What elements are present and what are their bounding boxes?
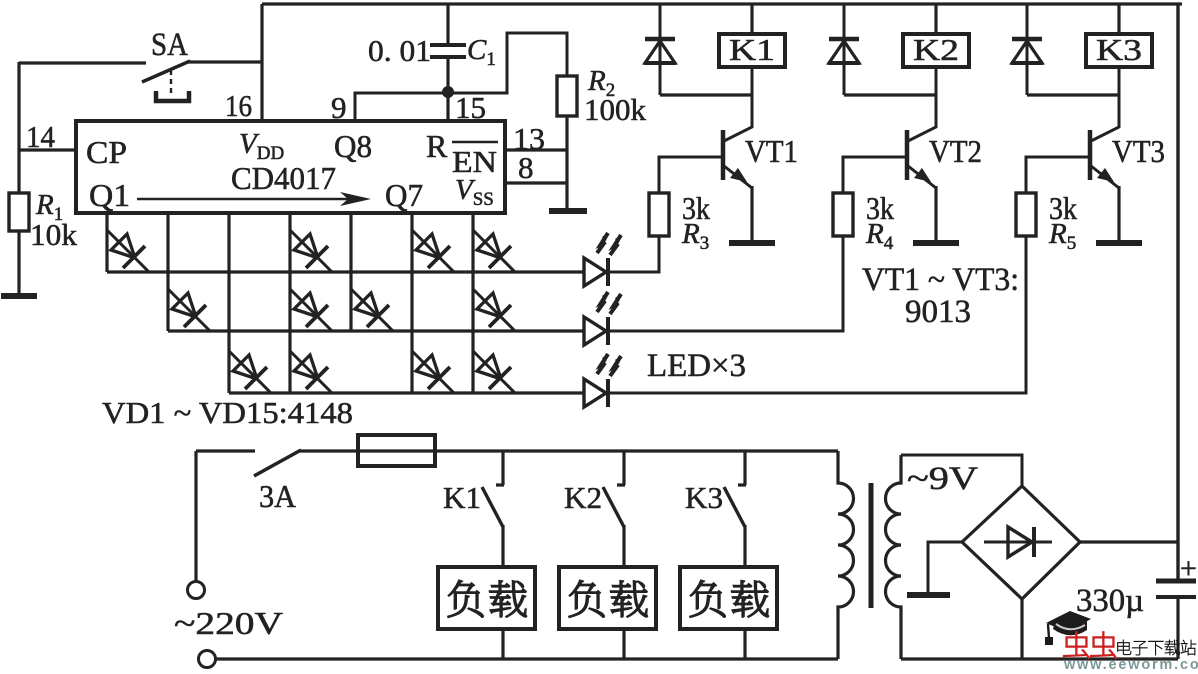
diode (flyback, across K2) [828,4,860,95]
diode (flyback, across K1) [644,4,676,95]
diode VD6 (matrix col Q4 to row 2) [290,289,332,331]
LED 3 [584,354,621,407]
wire: VT3 emitter to ground [1117,186,1120,242]
wire: bridge + output to right rail [1080,540,1178,543]
wire: contact K1 top stub [496,451,504,485]
wire: contact K3 to load [743,525,746,567]
watermark: site name text [1117,640,1196,655]
svg-text:~9V: ~9V [907,461,978,497]
svg-text:R: R [426,128,448,164]
svg-text:330µ: 330µ [1076,583,1144,619]
wire: +V right rail down to filter cap [1176,4,1179,579]
svg-text:~220V: ~220V [174,605,283,641]
wire: relay K3 top lead [1117,4,1120,34]
svg-text:+: + [1180,552,1197,585]
terminal: AC neutral [199,651,216,668]
arrow Q1 to Q7 [137,192,371,206]
junction node (pin15/C1/Q8/R2) [442,86,454,98]
wire: output column Q5 [349,213,352,331]
ground (VT2 emitter) [913,242,959,244]
svg-text:8: 8 [518,150,534,185]
wire: bridge bottom corner to secondary return [1020,599,1023,659]
wire: output column Q7 [471,213,474,393]
svg-text:14: 14 [26,119,55,154]
diode VD4 (matrix col Q7 to row 1) [473,230,515,272]
wire: +V top rail [262,2,1182,5]
wire: reset node to R2 top [448,33,567,93]
switch SA actuator dashed link [170,70,172,93]
svg-text:CD4017: CD4017 [231,160,336,196]
diode VD7 (matrix col Q5 to row 2) [351,289,393,331]
svg-text:10k: 10k [30,217,78,252]
wire: contact K2 top stub [617,451,625,485]
wire: relay K2 top lead [934,4,937,34]
diode VD8 (matrix col Q7 to row 2) [473,289,515,331]
svg-text:0. 01: 0. 01 [368,33,431,68]
wire: contact K2 to load [622,525,625,567]
relay contact K3 blade [724,487,745,527]
diode VD3 (matrix col Q6 to row 1) [412,230,454,272]
resistor R5 [1016,193,1036,236]
svg-text:VT2: VT2 [929,133,982,169]
diode VD12 (matrix col Q7 to row 3) [473,351,515,393]
wire: K3 bottom to VT3 collector [1091,67,1119,141]
wire: output column Q4 [288,213,291,393]
watermark: graduation cap logo [1045,611,1091,645]
wire: output column Q3 [227,213,230,393]
wire: matrix bus row 1 [107,270,584,273]
wire: mains left stub [196,449,255,452]
ground (VT1 emitter) [729,242,775,244]
capacitor C1 [430,45,466,57]
ground (R1) [1,293,37,299]
wire: Q8 pin 9 link to reset node [355,93,448,121]
wire: pin 8 stub [505,181,567,184]
wire: load (K1) to mains bottom [501,629,504,659]
svg-text:K3: K3 [1096,32,1142,67]
bridge rectifier (diamond) [962,486,1080,599]
wire: relay K1 top lead [750,4,753,34]
switch SA blade [142,61,190,82]
pin label EN (active low) [452,142,498,179]
load box (K2) [559,567,656,629]
svg-text:9013: 9013 [905,294,971,330]
wire: VT1 emitter to ground [750,186,753,242]
resistor R2 [557,76,577,116]
wire: load (K2) to mains bottom [622,629,625,659]
svg-text:K1: K1 [729,32,775,67]
wire: VT2 emitter to ground [934,186,937,242]
diode (bridge symbol) [984,527,1052,557]
svg-text:LED×3: LED×3 [647,348,746,384]
relay contact K1 blade [482,487,503,527]
wire: output column Q1 [105,213,108,272]
wire: R2 bottom to ground [565,116,568,209]
svg-text:K3: K3 [685,480,723,515]
wire: mains bottom line [216,657,838,660]
wire: mains top line (switch to transformer) [299,449,838,452]
diode VD10 (matrix col Q4 to row 3) [290,351,332,393]
svg-text:3A: 3A [259,478,296,514]
resistor R3 [649,193,669,236]
terminal: AC live [188,582,205,599]
svg-text:Q1: Q1 [89,177,130,213]
wire: VT1 base to R3 [659,157,723,193]
LED 2 [584,292,621,345]
wire: C1 top lead [446,4,449,44]
transformer T core [869,483,874,608]
wire: cap bottom lead [1176,597,1179,659]
wire: output column Q2 [166,213,169,331]
wire: flyback diode to collector line [660,93,752,96]
wire: flyback diode to collector line [844,93,936,96]
wire: C1 bottom lead to pin 15 [446,57,449,121]
svg-text:100k: 100k [584,92,647,127]
ground (R2/pin8) [549,208,587,214]
transistor VT1 [723,130,752,188]
wire: LED2 to R4 bottom [608,236,843,331]
svg-text:CP: CP [86,134,127,170]
diode VD9 (matrix col Q3 to row 3) [229,351,271,393]
wire: matrix bus row 3 [229,391,584,394]
wire: pin 16 from top rail [260,4,263,121]
load box (K3) [680,567,777,629]
relay contact K2 blade [603,487,624,527]
svg-text:VT1 ~ VT3:: VT1 ~ VT3: [862,262,1019,298]
wire: LED3 to R5 bottom [608,236,1026,393]
svg-text:VD1 ~ VD15:4148: VD1 ~ VD15:4148 [102,395,353,430]
wire: K1 bottom to VT1 collector [724,67,752,141]
wire: pin 13 stub [505,148,567,151]
relay coil K2 [903,32,969,67]
IC U1 CD4017 box [76,121,505,213]
transformer T primary [838,451,854,659]
wire: secondary bottom line [901,657,1178,660]
transformer T secondary [886,455,902,659]
wire: K2 bottom to VT2 collector [908,67,936,141]
ground (bridge) [907,592,950,598]
relay coil K1 [719,32,785,67]
fuse (3A) [358,435,435,466]
LED 1 [584,233,621,286]
switch SA pushbutton bracket [156,91,189,101]
svg-text:VT3: VT3 [1112,133,1165,169]
wire: VT2 base to R4 [843,157,907,193]
wire: VT3 base to R5 [1026,157,1090,193]
svg-text:16: 16 [225,88,252,123]
diode VD11 (matrix col Q6 to row 3) [412,351,454,393]
resistor R1 [9,193,29,231]
svg-text:VT1: VT1 [745,133,798,169]
transistor VT2 [907,130,936,188]
watermark: chongchong red text [1064,632,1117,659]
wire: left wire to switch SA [19,61,146,64]
svg-text:SA: SA [151,27,188,63]
wire: output column Q6 [410,213,413,393]
wire: pin 14 stub [19,148,77,151]
wire: load (K3) to mains bottom [743,629,746,659]
svg-text:K2: K2 [564,480,602,515]
load box (K1) [438,567,535,629]
svg-text:K2: K2 [913,32,959,67]
transistor VT3 [1090,130,1119,188]
wire: switch SA to pin16 line [188,60,262,63]
svg-text:K1: K1 [443,480,481,515]
wire: flyback diode to collector line [1027,93,1119,96]
wire: matrix bus row 2 [168,329,584,332]
ground (VT3 emitter) [1096,242,1142,244]
resistor R4 [833,193,853,236]
wire: left vertical to AC terminal [194,451,197,581]
wire: LED1 to R3 bottom [608,236,659,272]
diode VD2 (matrix col Q4 to row 1) [290,230,332,272]
diode VD5 (matrix col Q2 to row 2) [168,289,210,331]
diode VD1 (matrix col Q1 to row 1) [107,230,149,272]
svg-text:Q8: Q8 [334,128,372,164]
wire: bridge AC- corner to ground [928,542,962,593]
relay coil K3 [1086,32,1152,67]
note VT1~VT3: 9013 [862,262,1019,330]
wire: R1 to ground [17,231,20,293]
wire: left vertical (SA to R1) [17,62,20,193]
svg-text:Q7: Q7 [385,177,423,213]
svg-text:www.eeworm.com: www.eeworm.com [1063,657,1198,669]
wire: secondary top to bridge [901,455,1022,487]
wire: contact K1 to load [501,525,504,567]
diode (flyback, across K3) [1011,4,1043,95]
wire: contact K3 top stub [738,451,746,485]
capacitor C2 330u (electrolytic) [1156,581,1196,597]
switch 3A blade [254,450,301,476]
